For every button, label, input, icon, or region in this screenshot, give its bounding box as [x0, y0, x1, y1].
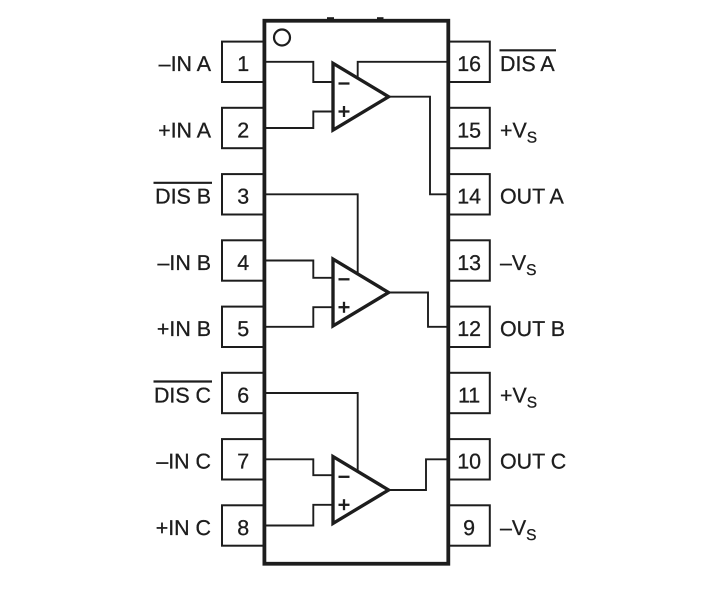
pin 5 box — [222, 307, 264, 347]
svg-text:OUT B: OUT B — [500, 317, 565, 341]
svg-text:DIS C: DIS C — [154, 383, 211, 407]
U1C inverting input marker (-) — [339, 476, 350, 478]
pin 16 box — [448, 42, 490, 82]
U1A inverting input marker (-) — [339, 82, 350, 84]
svg-text:+IN A: +IN A — [158, 118, 212, 142]
svg-text:OUT A: OUT A — [500, 185, 565, 209]
svg-text:10: 10 — [457, 450, 481, 474]
wire pin 7 to U1C inverting input — [263, 459, 334, 475]
wire U1A output to pin 14 (OUT A) — [388, 97, 450, 195]
U1C non-inverting input marker (+) — [339, 499, 350, 510]
wire pin 5 to U1B non-inverting input — [263, 307, 334, 327]
pin 11 box — [448, 373, 490, 413]
wire U1C output to pin 10 (OUT C) — [388, 459, 450, 490]
pin 10 box — [448, 439, 490, 479]
svg-text:–IN A: –IN A — [159, 52, 212, 76]
svg-text:DIS A: DIS A — [500, 52, 555, 76]
svg-text:14: 14 — [457, 185, 481, 209]
net label DIS B (pin 3) — [154, 183, 213, 209]
pin 3 box — [222, 174, 264, 214]
pin 14 box — [448, 174, 490, 214]
svg-text:–VS: –VS — [500, 251, 537, 279]
svg-text:–IN B: –IN B — [158, 251, 212, 275]
svg-text:13: 13 — [457, 251, 481, 275]
svg-text:+IN B: +IN B — [157, 317, 211, 341]
wire pin 4 to U1B inverting input — [263, 261, 334, 278]
pin 13 box — [448, 240, 490, 280]
U1A non-inverting input marker (+) — [339, 106, 350, 117]
op-amp U1C triangle — [333, 457, 389, 524]
svg-text:12: 12 — [457, 317, 481, 341]
svg-text:11: 11 — [458, 383, 480, 407]
svg-text:–VS: –VS — [500, 516, 537, 544]
IC body U1 (16-pin package outline) — [264, 17, 448, 564]
svg-text:16: 16 — [457, 52, 481, 76]
svg-text:4: 4 — [237, 251, 249, 275]
svg-text:1: 1 — [237, 52, 249, 76]
pin 7 box — [222, 439, 264, 479]
wire U1B output to pin 12 (OUT B) — [388, 293, 450, 327]
wire pin 16 (DIS A) to U1A disable — [358, 62, 450, 78]
wire pin 8 to U1C non-inverting input — [263, 505, 334, 526]
net label DIS C (pin 6) — [154, 382, 213, 408]
pin 15 box — [448, 108, 490, 148]
wire pin 1 to U1A inverting input — [263, 62, 334, 82]
U1B non-inverting input marker (+) — [339, 302, 350, 313]
svg-text:+VS: +VS — [500, 383, 537, 411]
svg-text:+IN C: +IN C — [156, 516, 211, 540]
svg-text:7: 7 — [237, 450, 249, 474]
op-amp U1B triangle — [333, 259, 389, 326]
svg-text:6: 6 — [237, 383, 249, 407]
net label DIS A (pin 16) — [500, 50, 557, 76]
wire pin 2 to U1A non-inverting input — [263, 112, 334, 129]
wire pin 6 (DIS C) to U1C disable — [263, 393, 358, 471]
svg-text:DIS B: DIS B — [155, 185, 211, 209]
svg-text:8: 8 — [237, 516, 249, 540]
op-amp U1A triangle — [333, 63, 389, 130]
pin 12 box — [448, 307, 490, 347]
svg-text:9: 9 — [463, 516, 475, 540]
pin 1 indicator circle — [274, 30, 290, 46]
pin 1 box — [222, 42, 264, 82]
svg-text:2: 2 — [237, 118, 249, 142]
svg-text:–IN C: –IN C — [156, 450, 211, 474]
pin 9 box — [448, 505, 490, 545]
pin 2 box — [222, 108, 264, 148]
pin 4 box — [222, 240, 264, 280]
svg-text:15: 15 — [457, 118, 481, 142]
pin 6 box — [222, 373, 264, 413]
svg-text:5: 5 — [237, 317, 249, 341]
pin 8 box — [222, 505, 264, 545]
svg-text:OUT C: OUT C — [500, 450, 566, 474]
U1B inverting input marker (-) — [339, 278, 350, 280]
svg-text:+VS: +VS — [500, 118, 537, 146]
svg-text:3: 3 — [237, 185, 249, 209]
wire pin 3 (DIS B) to U1B disable — [263, 194, 358, 273]
